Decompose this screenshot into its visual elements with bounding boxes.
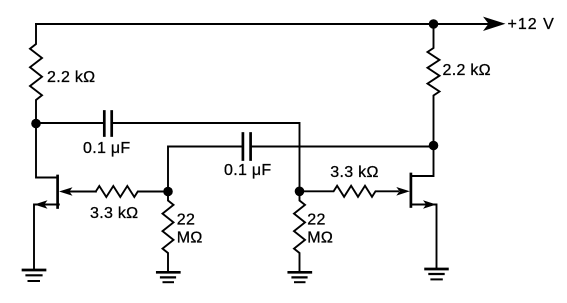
node A: left drain node (dot) <box>31 119 41 129</box>
wire: Q2 source lead down to ground <box>412 205 437 269</box>
svg-text:MΩ: MΩ <box>307 230 333 247</box>
resistor R2 2.2 kOhm (right drain resistor) <box>428 24 440 146</box>
wire: C1 right plate to right gate node D <box>112 123 300 191</box>
svg-text:2.2 kΩ: 2.2 kΩ <box>47 69 95 86</box>
svg-text:+12 V: +12 V <box>508 16 555 33</box>
node: top-right junction (dot) <box>429 19 439 29</box>
Q2 gate arrow <box>396 187 410 196</box>
node B: right drain node (dot) <box>429 141 439 151</box>
transistor Q2 (right JFET) bar <box>410 174 413 207</box>
svg-text:3.3 kΩ: 3.3 kΩ <box>90 205 138 222</box>
node D: right gate node (dot) <box>295 187 305 197</box>
resistor R5 22 MOhm (left gate-to-ground) <box>163 192 174 272</box>
svg-text:0.1 μF: 0.1 μF <box>83 140 130 157</box>
svg-text:MΩ: MΩ <box>177 230 203 247</box>
svg-text:0.1 μF: 0.1 μF <box>224 162 271 179</box>
ground: Q2 source <box>426 269 448 279</box>
ground: R5 bottom <box>157 272 179 282</box>
ground: Q1 source <box>23 270 45 281</box>
resistor R6 22 MOhm (right gate-to-ground) <box>294 191 305 271</box>
svg-text:22: 22 <box>307 212 325 229</box>
node C: left gate node (dot) <box>163 187 173 197</box>
wire: C2 right plate to node B <box>251 146 434 148</box>
resistor R4 3.3 kOhm (right gate resistor) <box>300 186 399 197</box>
Q1 gate arrow <box>59 187 73 196</box>
wire: Q1 source lead down to ground <box>34 205 59 270</box>
resistor R1 2.2 kOhm (left drain resistor) <box>30 24 42 124</box>
transistor Q1 (left JFET) bar <box>56 176 59 208</box>
wire: Q2 drain lead up to node B <box>412 146 434 177</box>
wire: Q1 gate lead <box>69 191 96 193</box>
svg-text:22: 22 <box>177 212 195 229</box>
wire: left gate node C riser to C2 left plate <box>168 147 243 192</box>
power arrow +12 V <box>483 17 506 31</box>
wire: +12 V supply rail (top) <box>36 23 434 25</box>
wire: node A down to Q1 drain lead <box>36 124 57 178</box>
resistor R3 3.3 kOhm (left gate resistor) <box>96 186 168 197</box>
capacitor C2 0.1 uF <box>243 134 251 160</box>
ground: R6 bottom <box>289 272 311 282</box>
wire: node A to C1 left plate <box>36 122 104 124</box>
Q2 source arrow <box>423 200 436 209</box>
svg-text:2.2 kΩ: 2.2 kΩ <box>443 62 491 79</box>
Q1 source arrow <box>34 200 47 209</box>
capacitor C1 0.1 uF <box>104 112 111 136</box>
svg-text:3.3 kΩ: 3.3 kΩ <box>330 164 378 181</box>
wire: supply stub to arrow <box>434 23 497 25</box>
